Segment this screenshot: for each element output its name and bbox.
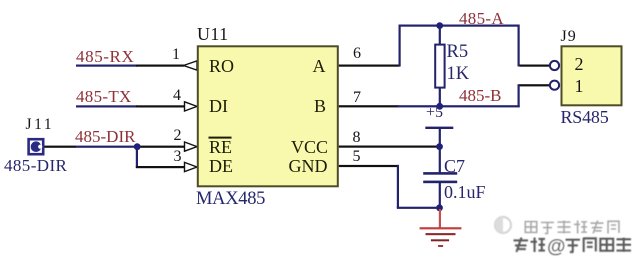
svg-text:@: @ <box>547 237 566 258</box>
